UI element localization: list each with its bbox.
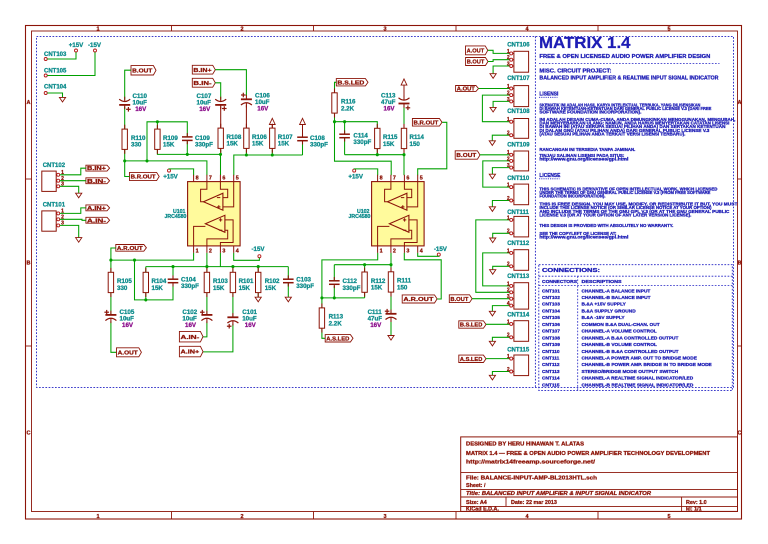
label A.IN+	[86, 205, 110, 211]
wire R105 to C105	[110, 293, 112, 314]
wire pin6 line U102	[376, 149, 378, 155]
svg-text:CHANNEL-A VOLUME CONTROL: CHANNEL-A VOLUME CONTROL	[582, 329, 657, 335]
wire B.OUT to CNT113 pin3	[472, 298, 510, 300]
wire CNT102 pin2 to B.IN-	[60, 180, 86, 182]
svg-text:A.IN-: A.IN-	[181, 335, 200, 341]
svg-text:15K: 15K	[152, 285, 164, 292]
svg-text:CNT109: CNT109	[542, 342, 560, 348]
wire CNT107 pin2 to CNT108 pin1	[482, 95, 509, 122]
svg-text:16V: 16V	[245, 322, 257, 329]
svg-text:THIS DESIGN IS PROVIDED WITH A: THIS DESIGN IS PROVIDED WITH ABSOLUTELY …	[539, 223, 673, 228]
svg-text:7: 7	[209, 176, 212, 182]
label A.OUT to CNT106	[466, 46, 488, 55]
wire feedback bottom U101	[135, 260, 174, 300]
svg-text:CNT102: CNT102	[542, 295, 560, 301]
wire B.IN- to C107	[215, 83, 220, 100]
svg-text:CONNECTIONS:: CONNECTIONS:	[542, 268, 600, 274]
svg-text:LICENSE: LICENSE	[539, 173, 561, 179]
svg-text:B.OUT: B.OUT	[467, 60, 485, 66]
svg-text:1: 1	[507, 84, 510, 90]
svg-text:15K: 15K	[278, 141, 290, 148]
svg-text:6: 6	[222, 176, 225, 182]
label A.OUT (bottom)	[117, 348, 142, 357]
svg-text:CNT113: CNT113	[542, 369, 560, 375]
label B.OUT to CNT106	[466, 58, 488, 66]
wire pin1 U101 output line	[111, 253, 194, 260]
wire CNT105 to -15V	[47, 52, 95, 75]
svg-text:2: 2	[393, 248, 396, 254]
svg-text:8: 8	[196, 176, 199, 182]
svg-text:CHANNEL-A BALANCE INPUT: CHANNEL-A BALANCE INPUT	[582, 288, 651, 294]
capacitor C110	[119, 104, 130, 106]
svg-text:5: 5	[667, 26, 670, 32]
svg-text:CHANNEL-B B.&A CONTROLLED OUTP: CHANNEL-B B.&A CONTROLLED OUTPUT	[582, 349, 679, 355]
wire feedback top line U101	[147, 122, 187, 161]
svg-text:Sheet: /: Sheet: /	[466, 483, 486, 489]
svg-text:330pF: 330pF	[296, 283, 314, 290]
wire CNT103 to +15V	[47, 52, 76, 59]
svg-text:3: 3	[507, 294, 510, 300]
svg-text:B.IN-: B.IN-	[193, 81, 211, 87]
svg-text:8: 8	[380, 176, 383, 182]
svg-text:330: 330	[117, 285, 128, 292]
wire C110 to R110	[124, 107, 126, 130]
svg-text:330pF: 330pF	[195, 142, 213, 149]
svg-text:B.OUT: B.OUT	[456, 153, 476, 159]
ground at CNT107	[490, 107, 496, 112]
svg-text:2: 2	[507, 55, 510, 61]
wire CNT111 pin1 to CNT113 pin2	[476, 220, 510, 292]
svg-text:CNT107: CNT107	[542, 329, 560, 335]
power pin +15V U101	[168, 169, 171, 172]
svg-text:15K: 15K	[239, 285, 251, 292]
svg-text:C: C	[27, 431, 31, 437]
svg-text:B.S.LED: B.S.LED	[337, 80, 364, 86]
wire C113 to R114	[403, 104, 405, 128]
wire R101 to C101	[232, 293, 234, 317]
svg-text:-15V: -15V	[434, 246, 448, 253]
svg-text:1: 1	[507, 248, 510, 254]
svg-text:LISENSI: LISENSI	[539, 91, 559, 97]
svg-text:1: 1	[507, 49, 510, 55]
svg-text:CNT105: CNT105	[542, 315, 560, 321]
label B.IN+	[86, 165, 110, 171]
connections table	[539, 265, 733, 391]
svg-text:CNT113: CNT113	[507, 274, 530, 280]
label B.OUT to CNT113	[449, 295, 472, 303]
svg-text:330pF: 330pF	[343, 285, 361, 292]
wire C111 to ground	[390, 320, 392, 335]
svg-text:2: 2	[209, 248, 212, 254]
svg-text:6: 6	[406, 176, 409, 182]
svg-text:CHANNEL-B VOLUME CONTROL: CHANNEL-B VOLUME CONTROL	[582, 342, 657, 348]
svg-text:B.&A +15V SUPPLY: B.&A +15V SUPPLY	[582, 302, 627, 308]
svg-text:CHANNEL-B POWER AMP. BRIDGE IN: CHANNEL-B POWER AMP. BRIDGE IN TO BRIDGE…	[582, 362, 713, 368]
svg-text:16V: 16V	[370, 322, 382, 329]
svg-text:1: 1	[507, 281, 510, 287]
svg-text:CNT106: CNT106	[542, 322, 560, 328]
wire to B.R.OUT	[125, 161, 130, 177]
resistor R115	[375, 128, 380, 148]
svg-text:CNT105: CNT105	[44, 69, 67, 75]
svg-text:15K: 15K	[227, 141, 239, 148]
label B.R.OUT	[130, 172, 160, 180]
svg-text:CNT114: CNT114	[507, 313, 530, 319]
svg-text:2: 2	[240, 514, 243, 520]
power symbol above C113	[401, 79, 407, 85]
svg-text:File: BALANCE-INPUT-AMP-BL2013: File: BALANCE-INPUT-AMP-BL2013HTL.sch	[466, 475, 597, 481]
wire B.S.LED to CNT114 pin1	[486, 323, 510, 325]
resistor R107	[270, 128, 275, 148]
capacitor C108	[297, 136, 308, 138]
svg-text:3: 3	[383, 514, 386, 520]
ground at CNT101	[76, 238, 82, 243]
label A.S.LED to CNT115	[459, 355, 486, 362]
svg-text:B.OUT: B.OUT	[450, 297, 468, 303]
wire CNT107 pin3 to ground	[493, 101, 510, 107]
wire B.OUT to CNT109 pin1	[480, 154, 510, 156]
svg-text:CHANNEL-A B.&A CONTROLLED OUTP: CHANNEL-A B.&A CONTROLLED OUTPUT	[582, 335, 679, 341]
wire A.OUT to CNT106 pin1	[488, 50, 510, 53]
svg-text:16V: 16V	[185, 322, 197, 329]
svg-text:150: 150	[410, 141, 421, 148]
svg-text:CNT111: CNT111	[542, 356, 560, 362]
resistor R114	[401, 128, 406, 148]
wire R102 to ground	[257, 293, 259, 297]
resistor R111	[388, 272, 393, 292]
op-amp U102 JRC4580	[372, 175, 425, 255]
wire CNT112 pin1 to CNT113 pin1	[483, 253, 510, 286]
svg-text:JRC4580: JRC4580	[164, 214, 186, 220]
svg-text:2: 2	[507, 91, 510, 97]
svg-text:CNT112: CNT112	[542, 362, 560, 368]
svg-text:CNT108: CNT108	[542, 335, 560, 341]
svg-text:3: 3	[507, 97, 510, 103]
wire CNT109 pin3 to ground	[492, 168, 509, 175]
svg-text:CONNECTORS: CONNECTORS	[542, 279, 578, 285]
label A.R.OUT	[116, 245, 147, 252]
svg-text:CNT110: CNT110	[542, 349, 560, 355]
svg-text:330pF: 330pF	[310, 142, 328, 149]
svg-text:B.IN+: B.IN+	[193, 68, 212, 74]
resistor R106	[244, 128, 249, 148]
svg-text:DESCRIPTIONS: DESCRIPTIONS	[582, 279, 623, 285]
svg-text:RANCANGAN INI TERSEDIA TANPA J: RANCANGAN INI TERSEDIA TANPA JAMINAN.	[539, 147, 635, 152]
svg-text:2: 2	[507, 156, 510, 162]
svg-text:CHANNEL-B REALTIME SIGNAL INDI: CHANNEL-B REALTIME SIGNAL INDICATOR/LED	[582, 382, 694, 388]
svg-text:15K: 15K	[252, 141, 264, 148]
svg-text:A.S.LED: A.S.LED	[326, 336, 349, 342]
resistor R110	[122, 129, 127, 149]
capacitor C109	[182, 136, 193, 138]
wire +15V to pin8 U102	[354, 169, 378, 175]
svg-text:CNT115: CNT115	[507, 347, 530, 353]
svg-text:CNT104: CNT104	[44, 85, 67, 91]
svg-text:2: 2	[507, 131, 510, 137]
svg-text:A.OUT: A.OUT	[467, 48, 485, 54]
wire CNT104 to ground	[47, 93, 62, 97]
label A.OUT to CNT107	[456, 86, 479, 92]
svg-text:CNT103: CNT103	[44, 52, 67, 58]
svg-text:STEREO/BRIDGE MODE OUTPUT SWIT: STEREO/BRIDGE MODE OUTPUT SWITCH	[582, 369, 679, 375]
svg-text:DESIGNED BY HERU HINAWAN T. AL: DESIGNED BY HERU HINAWAN T. ALATAS	[466, 442, 584, 448]
component lead stubs	[124, 97, 126, 102]
svg-text:+15V: +15V	[69, 42, 84, 49]
svg-text:2: 2	[507, 367, 510, 373]
svg-text:KiCad E.D.A.: KiCad E.D.A.	[466, 507, 499, 513]
svg-text:1: 1	[507, 215, 510, 221]
label B.S.LED (left)	[336, 79, 368, 86]
svg-text:330pF: 330pF	[353, 139, 371, 146]
ground below C111	[388, 336, 394, 341]
svg-text:2: 2	[507, 196, 510, 202]
svg-text:CNT107: CNT107	[507, 76, 530, 82]
svg-text:SOFTWARE FOUNDATION INCORPORAT: SOFTWARE FOUNDATION INCORPORATION).	[539, 110, 641, 115]
wire A.OUT to CNT107 pin1	[479, 88, 510, 90]
resistor R104	[143, 272, 148, 292]
svg-text:http://matrix14freeamp.sourcef: http://matrix14freeamp.sourceforge.net/	[466, 460, 596, 466]
svg-text:1: 1	[196, 248, 199, 254]
op-amp U101 JRC4580	[188, 175, 241, 255]
svg-text:B.&A -15V SUPPLY: B.&A -15V SUPPLY	[582, 315, 626, 321]
label A.S.LED (left)	[325, 335, 353, 342]
wire CNT109 pin2 to CNT110 pin1	[483, 161, 510, 187]
svg-text:Id: 1/1: Id: 1/1	[686, 507, 702, 513]
wire R104 bottom	[145, 293, 147, 300]
label A.R.OUT (right)	[402, 295, 437, 303]
capacitor C106	[241, 98, 252, 100]
wire CNT115 pin2 to ground	[492, 372, 509, 376]
svg-text:2.2K: 2.2K	[329, 321, 343, 328]
wire B.IN+ to C106	[215, 70, 246, 96]
ground at CNT114	[489, 341, 495, 346]
svg-text:B.S.LED: B.S.LED	[460, 323, 483, 329]
svg-text:A.OUT: A.OUT	[118, 350, 139, 356]
wire R113 to A.S.LED	[322, 328, 325, 338]
capacitor C104	[168, 278, 179, 280]
svg-text:A.S.LED: A.S.LED	[460, 357, 483, 363]
svg-text:2: 2	[507, 262, 510, 268]
svg-text:1: 1	[96, 26, 99, 32]
resistor R113	[319, 308, 324, 328]
svg-text:C: C	[738, 431, 742, 437]
wire R116 bottom junction	[334, 113, 336, 122]
svg-text:15K: 15K	[265, 285, 277, 292]
wire A.R.OUT to line	[111, 248, 116, 260]
resistor R108	[218, 128, 223, 148]
svg-text:MISC. CIRCUIT PROJECT:: MISC. CIRCUIT PROJECT:	[539, 69, 611, 75]
svg-text:CNT103: CNT103	[542, 302, 560, 308]
wire bottom line U102	[322, 297, 365, 299]
wire pin5 line U101	[234, 155, 303, 175]
wire C102 to A.IN-	[203, 321, 207, 337]
power pin -15V U102	[437, 253, 440, 256]
svg-text:B.R.OUT: B.R.OUT	[414, 120, 439, 126]
wire line pin2 U102	[333, 265, 335, 281]
ground at CNT109	[489, 174, 495, 179]
svg-text:16V: 16V	[122, 322, 134, 329]
wire C105 to A.OUT	[111, 321, 117, 352]
svg-text:B: B	[27, 261, 31, 267]
capacitor C102	[201, 314, 212, 316]
svg-text:5: 5	[236, 176, 239, 182]
power pin +15V U102	[353, 169, 356, 172]
svg-text:15K: 15K	[371, 285, 383, 292]
ground at CNT115	[489, 375, 495, 380]
capacitor C101	[227, 316, 238, 318]
label B.IN+ (net)	[192, 65, 215, 74]
ground at CNT108	[489, 141, 495, 146]
svg-text:COMMON B.&A DUAL-CHAN. OUT: COMMON B.&A DUAL-CHAN. OUT	[582, 322, 660, 328]
resistor R109	[155, 129, 160, 149]
svg-text:Rev: 1.0: Rev: 1.0	[686, 500, 707, 506]
svg-text:MATRIX 1.4 — FREE & OPEN AUDIO: MATRIX 1.4 — FREE & OPEN AUDIO POWER AMP…	[466, 451, 711, 457]
wire B.OUT to C110	[125, 70, 131, 100]
ground at CNT110	[489, 207, 495, 212]
svg-text:CNT112: CNT112	[507, 241, 530, 247]
svg-text:CNT106: CNT106	[507, 42, 530, 48]
svg-text:CNT102: CNT102	[43, 163, 66, 169]
svg-text:3: 3	[222, 248, 225, 254]
wire CNT101 pin2 to A.IN-	[60, 219, 86, 220]
label A.IN- (net)	[179, 331, 203, 342]
svg-text:A.OUT: A.OUT	[457, 87, 476, 93]
svg-text:1: 1	[507, 150, 510, 156]
wire C107 to R108	[220, 107, 222, 129]
wire C103 to ground	[287, 283, 289, 297]
resistor R116	[332, 93, 337, 113]
svg-text:4: 4	[507, 301, 510, 307]
wire top line U102	[335, 122, 378, 129]
capacitor C103	[283, 278, 294, 280]
svg-text:16V: 16V	[135, 106, 147, 113]
svg-text:-15V: -15V	[88, 42, 102, 49]
svg-text:16V: 16V	[199, 106, 211, 113]
svg-text:15K: 15K	[213, 285, 225, 292]
ground below R102	[255, 297, 261, 302]
svg-text:CNT114: CNT114	[542, 376, 560, 382]
wire CNT113 pin4 to ground	[492, 306, 509, 312]
wire A.S.LED to CNT115 pin1	[486, 358, 510, 360]
label B.IN-	[86, 178, 110, 184]
svg-text:A.IN+: A.IN+	[181, 350, 201, 356]
svg-text:15K: 15K	[383, 141, 395, 148]
svg-text:CNT110: CNT110	[507, 176, 530, 182]
svg-text:5: 5	[667, 514, 670, 520]
svg-text:CNT109: CNT109	[507, 143, 530, 149]
wire R110 bottom / output line U101	[125, 150, 207, 176]
svg-text:MATRIX 1.4: MATRIX 1.4	[539, 35, 631, 52]
svg-text:http://www.gnu.org/licenses/gp: http://www.gnu.org/licenses/gpl.html	[539, 157, 628, 162]
label B.R.OUT (right)	[412, 119, 442, 127]
wire R111 to C111	[390, 292, 392, 313]
resistor R102	[256, 272, 261, 292]
svg-text:2.2K: 2.2K	[341, 105, 355, 112]
svg-text:B: B	[738, 261, 742, 267]
wire A.R.OUT to pin3 U102	[404, 253, 441, 299]
svg-text:B.IN-: B.IN-	[87, 179, 106, 185]
wire CNT111 pin2 to ground	[493, 233, 510, 238]
wire pin4 U102 to -15V	[418, 253, 439, 256]
ground at CNT104	[59, 97, 65, 102]
svg-text:2: 2	[507, 333, 510, 339]
svg-text:A.R.OUT: A.R.OUT	[403, 297, 434, 303]
svg-text:A.IN+: A.IN+	[87, 206, 107, 212]
svg-text:1: 1	[507, 354, 510, 360]
label B.S.LED to CNT114	[459, 321, 486, 328]
svg-text:CNT108: CNT108	[507, 109, 530, 115]
resistor R105	[108, 272, 113, 292]
wire B.S.LED to R116	[335, 82, 337, 93]
wire B.OUT to CNT106 pin2	[488, 60, 510, 62]
label A.IN-	[86, 217, 110, 223]
svg-text:A.IN-: A.IN-	[87, 218, 106, 224]
svg-text:CNT101: CNT101	[542, 288, 560, 294]
wire pin4 U101 to -15V	[234, 253, 260, 260]
ground at CNT102	[76, 193, 82, 198]
ground at CNT111	[490, 238, 496, 243]
svg-text:-15V: -15V	[251, 246, 265, 253]
svg-text:1: 1	[507, 183, 510, 189]
svg-text:http://www.gnu.org/licenses/gp: http://www.gnu.org/licenses/gpl.html	[539, 235, 628, 240]
wire R116 junction to pin7 U102	[335, 122, 392, 176]
svg-text:CNT111: CNT111	[507, 210, 529, 216]
svg-text:330pF: 330pF	[181, 283, 199, 290]
svg-text:CHANNEL-A REALTIME SIGNAL INDI: CHANNEL-A REALTIME SIGNAL INDICATOR/LED	[582, 376, 694, 382]
svg-text:A: A	[738, 100, 742, 106]
resistor R112	[362, 272, 367, 292]
wire line2 U101 (pin2/pin3 nets)	[146, 266, 288, 268]
ground at CNT112	[490, 270, 496, 275]
svg-text:BALANCED INPUT AMPLIFIER & REA: BALANCED INPUT AMPLIFIER & REALTIME INPU…	[539, 75, 718, 81]
label B.OUT	[131, 66, 156, 75]
svg-text:3: 3	[507, 61, 510, 67]
wire CNT106 pin3 to ground	[493, 66, 510, 74]
label B.IN- (net)	[192, 78, 215, 87]
label A.IN+ (net)	[179, 346, 203, 357]
svg-text:B.&A SUPPLY GROUND: B.&A SUPPLY GROUND	[582, 309, 637, 315]
svg-text:330: 330	[131, 142, 142, 149]
wire R109/C109/R108 bottoms to pin6	[157, 150, 220, 155]
svg-text:FREE & OPEN LICENSED AUDIO POW: FREE & OPEN LICENSED AUDIO POWER AMPLIFI…	[539, 54, 710, 60]
svg-text:LICENSE V.3 (OR AT YOUR OPTION: LICENSE V.3 (OR AT YOUR OPTION OF ANY LA…	[539, 212, 691, 217]
svg-text:3: 3	[507, 163, 510, 169]
label B.OUT to CNT109	[455, 151, 480, 159]
capacitor C105	[105, 314, 116, 316]
wire pin1 U102 to R113	[322, 253, 378, 308]
svg-text:4: 4	[420, 248, 423, 254]
svg-text:A: A	[27, 100, 31, 106]
wire C101 to A.IN+	[203, 324, 233, 352]
svg-text:1: 1	[507, 319, 510, 325]
svg-text:4: 4	[236, 248, 239, 254]
svg-text:+15V: +15V	[163, 173, 178, 180]
svg-text:1: 1	[380, 248, 383, 254]
capacitor C113	[403, 85, 405, 96]
svg-text:7: 7	[393, 176, 396, 182]
svg-text:150: 150	[397, 284, 408, 291]
svg-text:A.R.OUT: A.R.OUT	[117, 246, 143, 252]
wire CNT110 pin2 to ground	[492, 201, 509, 207]
ground below C103	[285, 297, 291, 302]
svg-text:2: 2	[507, 229, 510, 235]
svg-text:Size: A4: Size: A4	[466, 500, 487, 506]
svg-text:B.IN+: B.IN+	[87, 166, 107, 172]
wire R103 to C102	[206, 293, 208, 314]
svg-text:+15V: +15V	[348, 173, 363, 180]
svg-text:1: 1	[507, 117, 510, 123]
wire CNT101 pin1 to A.IN+	[60, 208, 86, 214]
